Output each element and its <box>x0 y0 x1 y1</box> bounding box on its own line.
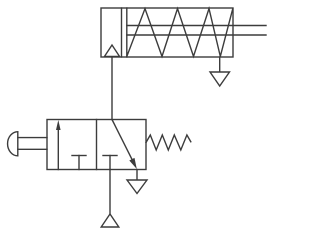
valve V1 right position blocked port 1 <box>103 156 117 170</box>
valve V1 left position flow arrow <box>56 120 61 170</box>
valve V1 left position blocked port <box>72 156 86 170</box>
valve V1 body <box>47 120 146 170</box>
wire valve port 1 to supply <box>109 170 111 215</box>
cylinder A1 return spring <box>127 9 233 57</box>
cylinder A1 exhaust line <box>219 57 221 72</box>
cylinder A1 port triangle <box>105 45 120 56</box>
supply triangle port 1 <box>101 214 119 227</box>
valve V1 exhaust line port 3 <box>136 170 138 181</box>
cylinder A1 body <box>101 8 233 57</box>
valve V1 exhaust triangle port 3 <box>127 180 147 194</box>
cylinder A1 exhaust triangle <box>210 72 230 86</box>
wire cylinder port to valve port 2 <box>111 57 113 120</box>
valve V1 pushbutton actuator <box>8 132 47 156</box>
valve V1 right position flow arrow 2 to 3 <box>112 120 137 170</box>
valve V1 return spring <box>146 135 191 150</box>
cylinder A1 piston rod <box>127 26 266 36</box>
cylinder A1 piston <box>122 8 127 57</box>
